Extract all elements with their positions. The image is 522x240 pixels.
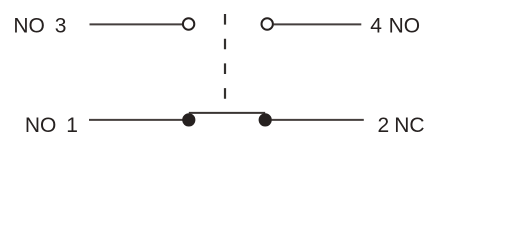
svg-text:NC: NC <box>394 114 424 137</box>
svg-text:NO: NO <box>389 14 421 37</box>
actuator dashed link <box>224 14 226 113</box>
wire from NO1 terminal to contact dot <box>89 119 185 121</box>
contact terminal 4 (open circle) <box>262 18 273 29</box>
wire from contact circle to 4 NO terminal <box>274 23 362 25</box>
contact terminal 2 (closed, filled dot) <box>259 113 272 126</box>
contact terminal 3 (open circle) <box>183 18 194 29</box>
svg-text:NO 3: NO 3 <box>13 14 66 37</box>
wire from contact dot to 2 NC terminal <box>272 119 364 121</box>
movable bridge bar (closed contact) <box>189 112 265 114</box>
svg-text:4: 4 <box>370 14 382 37</box>
svg-text:2: 2 <box>378 114 390 137</box>
wire from NO3 terminal to contact circle <box>90 23 184 25</box>
contact terminal 1 (closed, filled dot) <box>182 113 195 126</box>
svg-text:NO 1: NO 1 <box>25 114 78 137</box>
